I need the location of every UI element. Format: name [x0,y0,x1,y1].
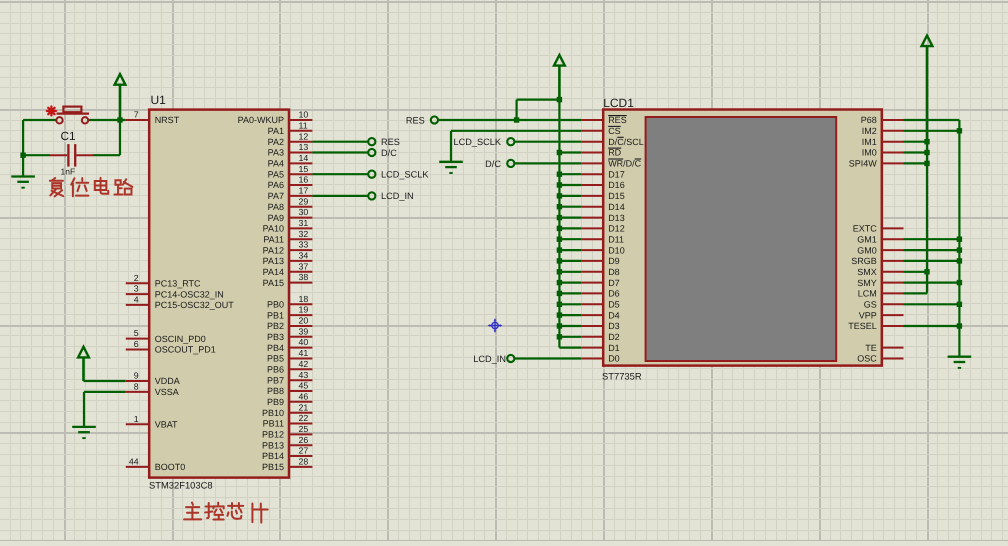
terminal LCD_IN [368,192,375,199]
terminal D/C (source) [507,160,514,167]
junction GM1 [957,237,962,242]
U1 pin 19 PB1 [267,305,312,321]
wire rail to LCD pin row [559,206,581,208]
svg-text:7: 7 [134,110,139,120]
LCD1 pin D8 [581,267,619,277]
wire rail to LCD pin row [559,314,581,316]
svg-text:30: 30 [299,207,309,217]
svg-text:26: 26 [299,435,309,445]
wire PA to LCD_IN terminal [312,195,368,197]
junction RES/VCC tie [514,117,519,122]
LCD1 pin D3 [581,321,619,331]
U1 pin 18 PB0 [267,294,312,310]
U1 pin 11 PA1 [268,120,313,136]
junction rail [557,237,562,242]
junction rail [557,258,562,263]
LCD1 pin D0 [581,354,619,364]
wire NRST down to C1 [119,120,121,155]
wire SRGB [904,260,960,262]
svg-text:27: 27 [299,446,309,456]
LCD1 pin D14 [581,202,624,212]
svg-text:OSC: OSC [857,354,877,364]
wire LCD_IN to LCD [515,357,582,359]
wire VDDA [84,380,126,382]
LCD1 pin TESEL [848,321,903,331]
svg-text:PA1: PA1 [268,126,284,136]
U1 pin 45 PB8 [267,381,312,397]
wire down to ground [22,120,24,177]
svg-text:LCD_SCLK: LCD_SCLK [381,170,429,180]
svg-text:D9: D9 [608,256,620,266]
power VCC arrow (reset) [115,74,126,120]
LCD1 pin OSC [857,354,903,364]
junction rail [557,247,562,252]
LCD1 pin IM0 [862,148,904,158]
svg-text:28: 28 [299,457,309,467]
svg-text:RES: RES [608,115,627,125]
svg-text:1: 1 [134,414,139,424]
wire P68 [904,119,960,121]
svg-text:IM2: IM2 [862,126,877,136]
LCD1 pin D4 [581,310,619,320]
svg-text:D/C/SCL: D/C/SCL [608,137,644,147]
svg-text:LCD_IN: LCD_IN [473,354,506,364]
svg-text:PB3: PB3 [267,332,284,342]
LCD1 pin LCM [858,289,904,299]
svg-text:RES: RES [406,115,425,125]
svg-text:D11: D11 [608,234,624,244]
wire rail to D1 (corner) [559,347,581,349]
wire up from RES [515,100,517,120]
junction rail [557,291,562,296]
svg-text:34: 34 [299,251,309,261]
svg-text:PA3: PA3 [268,148,284,158]
U1 pin 37 PA14 [263,261,313,277]
svg-text:PC15-OSC32_OUT: PC15-OSC32_OUT [155,300,235,310]
svg-text:PA13: PA13 [263,256,284,266]
wire PA to RES terminal [312,141,368,143]
svg-text:EXTC: EXTC [853,224,878,234]
LCD1 pin RES [581,115,626,125]
svg-text:8: 8 [134,382,139,392]
svg-text:OSCIN_PD0: OSCIN_PD0 [155,334,206,344]
LCD1 pin IM1 [862,137,904,147]
LCD screen area [646,117,837,361]
capacitor C1 [50,144,93,167]
svg-text:D10: D10 [608,245,625,255]
svg-text:38: 38 [299,272,309,282]
U1 pin 32 PA11 [263,229,312,245]
junction rail [557,150,562,155]
LCD1 pin WR/D/C [581,159,641,169]
terminal RES (source) [431,116,438,123]
U1 pin 44 BOOT0 [126,457,185,473]
svg-text:GM1: GM1 [857,234,877,244]
wire rail to LCD pin row [559,184,581,186]
ground (reset) [11,177,35,188]
LCD1 pin RD [581,148,621,158]
svg-text:25: 25 [299,424,309,434]
svg-text:PA14: PA14 [263,267,284,277]
wire IM1 [904,141,928,143]
svg-text:STM32F103C8: STM32F103C8 [149,480,213,491]
power VCC arrow (LCD left) [554,55,565,100]
wire button left to corner [23,119,56,121]
svg-text:PA11: PA11 [263,234,284,244]
svg-text:RD: RD [608,148,621,158]
wire rail to LCD pin row [559,227,581,229]
junction SMX [924,269,929,274]
svg-text:TE: TE [865,343,877,353]
U1 pin 34 PA13 [263,251,313,267]
svg-text:PB13: PB13 [262,440,284,450]
svg-text:32: 32 [299,229,309,239]
U1 pin 38 PA15 [263,272,313,288]
svg-text:VSSA: VSSA [155,387,179,397]
svg-text:D17: D17 [608,169,625,179]
U1 pin 1 VBAT [126,414,178,430]
LCD1 pin D2 [581,332,619,342]
svg-text:13: 13 [299,142,309,152]
wire rail to LCD pin row [559,325,581,327]
svg-text:39: 39 [299,326,309,336]
wire rail to LCD pin row [559,303,581,305]
svg-text:1nF: 1nF [61,167,76,177]
U1 pin 39 PB3 [267,326,312,342]
button actuator marker (red asterisk) [47,107,56,116]
svg-text:ST7735R: ST7735R [602,371,642,382]
svg-text:PB2: PB2 [267,321,284,331]
svg-text:41: 41 [299,348,309,358]
U1 pin 43 PB7 [267,370,312,386]
svg-text:VBAT: VBAT [155,419,178,429]
U1 pin 20 PB2 [267,316,312,332]
wire D/C to LCD [515,162,582,164]
svg-text:SMX: SMX [857,267,877,277]
label 主控芯片 (main control chip) [184,503,268,523]
svg-text:16: 16 [299,175,309,185]
svg-text:15: 15 [299,164,309,174]
svg-text:31: 31 [299,218,309,228]
LCD1 pin SMY [857,278,903,288]
U1 pin 16 PA6 [268,175,313,191]
svg-text:20: 20 [299,316,309,326]
junction IM1 [924,139,929,144]
svg-text:2: 2 [134,273,139,283]
wire IM0 [904,151,928,153]
junction rail [557,312,562,317]
svg-text:PA6: PA6 [268,180,284,190]
svg-text:PA2: PA2 [268,137,284,147]
wire IM2 [904,130,960,132]
junction rail [557,215,562,220]
junction rail [557,323,562,328]
wire rail to LCD pin row [559,271,581,273]
svg-text:17: 17 [299,186,309,196]
U1 pin 3 PC14-OSC32_IN [126,284,224,300]
LCD1 pin IM2 [862,126,904,136]
wire SPI4W [904,162,928,164]
junction GM0 [957,247,962,252]
U1 pin 31 PA10 [263,218,313,234]
LCD1 body [603,110,882,366]
U1 pin 2 PC13_RTC [126,273,201,289]
wire TESEL [904,325,960,327]
U1 pin 33 PA12 [263,240,313,256]
svg-text:PB4: PB4 [267,343,284,353]
LCD1 pin VPP [859,310,904,320]
U1 pin 9 VDDA [126,371,180,387]
U1 pin 46 PB9 [267,391,312,407]
junction rail [557,334,562,339]
U1 pin 29 PA8 [268,196,313,212]
LCD1 pin GM1 [857,234,903,244]
wire SMY [904,282,960,284]
svg-text:37: 37 [299,261,309,271]
LCD1 pin D9 [581,256,619,266]
label 复位电路 (reset circuit) [50,178,133,197]
svg-text:VDDA: VDDA [155,376,180,386]
LCD1 pin D6 [581,289,619,299]
junction IM2 [957,128,962,133]
LCD1 pin D10 [581,245,624,255]
U1 pin 5 OSCIN_PD0 [126,328,206,344]
LCD1 pin D1 [581,343,619,353]
U1 pin 22 PB11 [263,413,313,429]
junction GS [957,302,962,307]
junction rail [557,280,562,285]
LCD1 pin D7 [581,278,619,288]
svg-text:9: 9 [134,371,139,381]
wire LCD_SCLK to LCD [515,141,582,143]
svg-text:CS: CS [608,126,621,136]
svg-text:42: 42 [299,359,309,369]
junction TESEL [957,323,962,328]
svg-text:D2: D2 [608,332,620,342]
svg-text:D15: D15 [608,191,625,201]
svg-text:WR/D/C: WR/D/C [608,159,641,169]
svg-text:D4: D4 [608,310,620,320]
svg-text:RES: RES [381,137,400,147]
LCD1 pin D17 [581,169,624,179]
junction C1 left [20,153,25,158]
LCD1 pin SRGB [851,256,903,266]
svg-text:D8: D8 [608,267,620,277]
svg-text:TESEL: TESEL [848,321,877,331]
junction rail [557,302,562,307]
wire rail to LCD pin row [559,217,581,219]
wire rail to LCD pin row [559,249,581,251]
junction IM0 [924,150,929,155]
U1 pin 14 PA4 [268,153,313,169]
svg-text:10: 10 [299,110,309,120]
U1 pin 27 PB14 [262,446,312,462]
svg-text:BOOT0: BOOT0 [155,462,186,472]
terminal RES [368,138,375,145]
junction SRGB [957,258,962,263]
terminal LCD_IN (source) [507,355,514,362]
svg-text:OSCOUT_PD1: OSCOUT_PD1 [155,345,216,355]
svg-text:PC13_RTC: PC13_RTC [155,279,201,289]
LCD1 pin D12 [581,224,624,234]
svg-text:6: 6 [134,339,139,349]
svg-text:43: 43 [299,370,309,380]
U1 pin 4 PC15-OSC32_OUT [126,295,234,311]
svg-text:D0: D0 [608,354,620,364]
ground (VSSA) [72,427,96,438]
svg-text:PB9: PB9 [267,397,284,407]
junction SMY [957,280,962,285]
svg-text:PA7: PA7 [268,191,284,201]
U1 pin 26 PB13 [262,435,312,451]
svg-text:PC14-OSC32_IN: PC14-OSC32_IN [155,289,224,299]
wire rail to LCD pin row [559,151,581,153]
pushbutton switch [56,107,89,124]
wire VSSA to ground [83,392,85,427]
terminal LCD_SCLK (source) [507,138,514,145]
LCD1 pin D15 [581,191,624,201]
svg-text:IM0: IM0 [862,148,877,158]
U1 pin 17 PA7 [268,186,313,202]
wire rail to LCD pin row [559,195,581,197]
wire PA to LCD_SCLK terminal [312,173,368,175]
svg-text:C1: C1 [61,129,76,143]
svg-text:19: 19 [299,305,309,315]
svg-text:PB11: PB11 [263,419,284,429]
svg-text:33: 33 [299,240,309,250]
wire SMX [904,271,928,273]
svg-text:PB5: PB5 [267,354,284,364]
wire VSSA [84,391,126,393]
svg-text:PA5: PA5 [268,169,284,179]
svg-text:D12: D12 [608,224,625,234]
svg-text:LCD_IN: LCD_IN [381,191,414,201]
LCD1 pin GM0 [857,245,903,255]
svg-text:44: 44 [129,457,139,467]
svg-text:5: 5 [134,328,139,338]
LCD1 pin TE [865,343,903,353]
wire GM1 [904,238,960,240]
svg-text:PB0: PB0 [267,300,284,310]
svg-text:PB12: PB12 [262,430,284,440]
svg-text:D13: D13 [608,213,625,223]
svg-text:LCM: LCM [858,289,877,299]
svg-text:GS: GS [864,300,877,310]
svg-text:PA10: PA10 [263,224,284,234]
LCD1 pin P68 [861,115,904,125]
origin marker (blue crosshair) [488,318,503,333]
svg-text:D/C: D/C [381,148,397,158]
wire rail to LCD pin row [559,336,581,338]
svg-text:D7: D7 [608,278,620,288]
U1 pin 10 PA0-WKUP [238,110,313,126]
svg-text:PB10: PB10 [262,408,284,418]
VCC rail right vertical [926,142,928,294]
svg-text:SPI4W: SPI4W [849,159,878,169]
power VCC arrow (VDDA) [78,347,89,381]
terminal D/C [368,149,375,156]
junction SPI4W [924,161,929,166]
ground (CS) [439,162,463,173]
svg-text:PA4: PA4 [268,159,284,169]
wire rail to LCD pin row [559,292,581,294]
junction rail [557,204,562,209]
wire RES to LCD [438,119,581,121]
LCD1 pin CS [581,126,620,136]
MCU U1 body [149,110,289,478]
svg-text:PB14: PB14 [262,451,284,461]
wire LCM (corner) [904,292,928,294]
svg-text:PB1: PB1 [267,310,284,320]
svg-text:PA8: PA8 [268,202,284,212]
wire rail to LCD pin row [559,282,581,284]
LCD1 pin D5 [581,300,619,310]
junction rail [557,226,562,231]
U1 pin 7 NRST [126,110,180,126]
power VCC arrow (right) [922,36,933,142]
svg-text:4: 4 [134,295,139,305]
U1 pin 12 PA2 [268,131,313,147]
junction rail/branch [557,97,562,102]
svg-text:46: 46 [299,391,309,401]
junction rail [557,172,562,177]
svg-text:21: 21 [299,402,309,412]
svg-text:PA0-WKUP: PA0-WKUP [238,115,284,125]
svg-text:SRGB: SRGB [851,256,877,266]
U1 pin 30 PA9 [268,207,313,223]
svg-text:LCD_SCLK: LCD_SCLK [454,137,502,147]
junction NRST node [117,117,122,122]
wire rail to LCD pin row [559,238,581,240]
LCD1 pin D/C/SCL [581,137,643,147]
svg-text:PB15: PB15 [262,462,284,472]
svg-text:12: 12 [299,131,309,141]
LCD1 pin SPI4W [849,159,904,169]
svg-text:LCD1: LCD1 [603,96,634,110]
ground (right rail) [948,357,972,368]
U1 pin 6 OSCOUT_PD1 [126,339,216,355]
svg-text:3: 3 [134,284,139,294]
U1 pin 21 PB10 [262,402,312,418]
wire C1 right [93,154,120,156]
U1 pin 13 PA3 [268,142,313,158]
U1 pin 42 PB6 [267,359,312,375]
LCD1 pin EXTC [853,224,904,234]
U1 pin 41 PB5 [267,348,312,364]
svg-text:D16: D16 [608,180,625,190]
svg-text:GM0: GM0 [857,245,877,255]
terminal LCD_SCLK [368,171,375,178]
svg-text:14: 14 [299,153,309,163]
svg-text:40: 40 [299,337,309,347]
VCC rail vertical [558,100,560,348]
svg-text:U1: U1 [151,93,167,107]
svg-text:PA9: PA9 [268,213,284,223]
svg-text:P68: P68 [861,115,877,125]
svg-text:D1: D1 [608,343,620,353]
U1 pin 15 PA5 [268,164,313,180]
svg-text:22: 22 [299,413,309,423]
svg-text:D3: D3 [608,321,620,331]
wire PA to D/C terminal [312,151,368,153]
U1 pin 25 PB12 [262,424,312,440]
svg-text:PB7: PB7 [267,375,284,385]
wire CS down [450,131,452,162]
wire rail to LCD pin row [559,173,581,175]
U1 pin 40 PB4 [267,337,312,353]
svg-text:PA15: PA15 [263,278,284,288]
wire CS [451,130,581,132]
